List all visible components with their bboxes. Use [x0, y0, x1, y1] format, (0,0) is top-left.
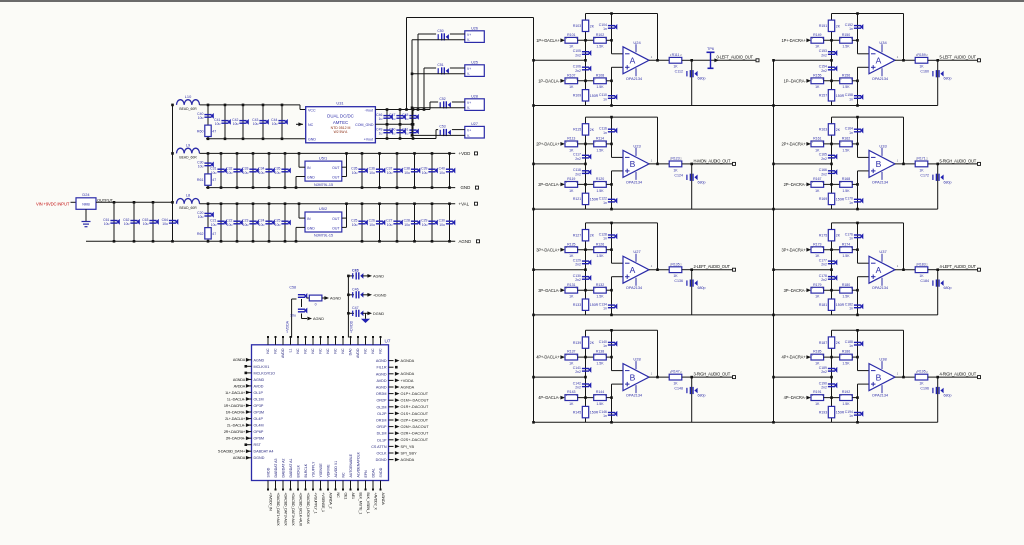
junction	[690, 268, 693, 271]
svg-text:10u: 10u	[369, 171, 375, 175]
svg-text:AGND: AGND	[373, 274, 384, 278]
wire	[903, 117, 905, 164]
svg-text:10u: 10u	[104, 222, 110, 226]
junction	[656, 59, 659, 62]
wire	[857, 14, 859, 54]
resistor R159	[915, 57, 928, 63]
svg-text:10u: 10u	[211, 223, 217, 227]
junction	[220, 240, 223, 243]
wire	[113, 202, 115, 241]
wire	[774, 105, 938, 107]
junction	[856, 104, 859, 107]
wire	[268, 204, 270, 242]
junction	[532, 376, 535, 379]
svg-text:2K: 2K	[590, 24, 595, 28]
capacitor C44	[278, 119, 287, 125]
junction	[610, 314, 613, 317]
resistor R111	[669, 57, 682, 63]
svg-text:C58: C58	[289, 286, 296, 290]
junction	[252, 202, 255, 205]
svg-text:1.5K: 1.5K	[596, 362, 604, 366]
svg-text:OR1P: OR1P	[376, 425, 387, 429]
arrow	[395, 445, 400, 449]
wire	[657, 14, 659, 61]
resistor R135	[669, 267, 682, 273]
junction	[207, 202, 210, 205]
svg-text:R132: R132	[596, 283, 604, 287]
pin right 3	[389, 373, 394, 375]
capacitor C170	[854, 198, 863, 204]
svg-text:V-: V-	[467, 38, 470, 42]
svg-text:1.5K: 1.5K	[842, 295, 850, 299]
wire	[928, 163, 938, 165]
port	[475, 202, 478, 205]
svg-text:R162: R162	[842, 137, 850, 141]
junction	[856, 329, 859, 332]
svg-text:OL1P: OL1P	[254, 391, 264, 395]
svg-text:1K: 1K	[673, 168, 678, 172]
DAC IC U7	[252, 345, 389, 481]
resistor R179	[811, 287, 824, 293]
svg-text:1.5K: 1.5K	[596, 85, 604, 89]
wire	[295, 227, 297, 241]
wire	[450, 33, 465, 35]
svg-text:1K: 1K	[815, 295, 820, 299]
port	[978, 59, 981, 62]
resistor R173	[811, 247, 824, 253]
junction	[152, 201, 155, 204]
junction	[399, 123, 402, 126]
svg-text:R167: R167	[813, 177, 821, 181]
svg-text:V-: V-	[467, 72, 470, 76]
wire	[299, 105, 301, 110]
wire	[386, 110, 388, 125]
wire	[406, 18, 408, 110]
resistor	[205, 174, 211, 185]
svg-text:OL4P: OL4P	[254, 417, 264, 421]
svg-text:2n2: 2n2	[575, 172, 581, 176]
resistor R127	[582, 230, 588, 241]
wire	[586, 222, 658, 224]
svg-text:GND: GND	[308, 138, 316, 142]
svg-text:O1P+-DACOUT: O1P+-DACOUT	[401, 392, 429, 396]
resistor R168	[840, 182, 853, 188]
svg-text:10u: 10u	[243, 171, 249, 175]
svg-text:+DACBD_DAT1+AUX: +DACBD_DAT1+AUX	[276, 493, 280, 527]
svg-text:3P--DACLA-: 3P--DACLA-	[538, 288, 560, 293]
svg-text:OUT: OUT	[332, 166, 340, 170]
svg-text:5-RIGH_AUDIO_OUT: 5-RIGH_AUDIO_OUT	[940, 158, 977, 163]
svg-text:DGND: DGND	[376, 458, 387, 462]
arrow	[246, 449, 251, 453]
wire	[578, 143, 594, 145]
svg-text:R151: R151	[819, 24, 827, 28]
svg-text:OPA2134: OPA2134	[626, 180, 642, 184]
wire	[96, 201, 173, 203]
junction	[386, 137, 389, 140]
wire	[342, 176, 347, 178]
junction	[448, 240, 451, 243]
junction	[830, 163, 833, 166]
wire	[682, 269, 692, 271]
pin right 6	[389, 393, 394, 395]
svg-text:R156: R156	[842, 73, 850, 77]
svg-text:U26: U26	[471, 27, 478, 31]
svg-text:2n2: 2n2	[575, 370, 581, 374]
svg-text:1.5K: 1.5K	[842, 362, 850, 366]
wire	[691, 270, 693, 315]
capacitor C106	[582, 66, 591, 72]
svg-text:C46: C46	[352, 288, 359, 292]
wire	[857, 171, 859, 209]
wire	[396, 204, 398, 242]
svg-text:1u: 1u	[405, 117, 409, 121]
svg-text:R145: R145	[573, 410, 581, 414]
svg-text:1n: 1n	[849, 97, 853, 101]
svg-text:C52: C52	[439, 97, 445, 101]
pin top 3	[282, 338, 284, 345]
junction	[856, 183, 859, 186]
fuse D24	[76, 198, 96, 210]
svg-text:2n2: 2n2	[575, 263, 581, 267]
svg-text:U28: U28	[471, 95, 478, 99]
wire	[606, 397, 611, 399]
junction	[396, 202, 399, 205]
svg-text:10u: 10u	[352, 223, 358, 227]
wire	[299, 166, 305, 168]
pin bottom 14	[365, 481, 367, 489]
svg-text:1K: 1K	[569, 402, 574, 406]
svg-text:1P+-DACLA+: 1P+-DACLA+	[536, 38, 560, 43]
junction	[656, 268, 659, 271]
arrow	[395, 425, 400, 429]
junction	[902, 376, 905, 379]
wire	[200, 104, 301, 106]
svg-text:1L+-DACLA+: 1L+-DACLA+	[225, 391, 245, 395]
junction	[412, 123, 415, 126]
wire	[578, 289, 594, 291]
arrow	[395, 372, 400, 376]
svg-text:O1R+-DACOUT: O1R+-DACOUT	[401, 405, 430, 409]
junction	[220, 202, 223, 205]
arrow	[560, 396, 565, 400]
svg-text:+VSUPPLY_1: +VSUPPLY_1	[313, 493, 317, 514]
capacitor C30	[446, 220, 455, 226]
svg-text:VDRIVE: VDRIVE	[326, 464, 330, 478]
capacitor C39	[428, 168, 437, 174]
svg-text:680p: 680p	[944, 77, 952, 81]
resistor R169	[828, 193, 834, 204]
resistor R126	[594, 247, 607, 253]
wire	[452, 101, 465, 103]
capacitor C128	[608, 233, 617, 239]
svg-text:DUAL DC/DC: DUAL DC/DC	[327, 113, 354, 118]
wire	[649, 59, 669, 61]
svg-text:1.5K: 1.5K	[596, 402, 604, 406]
svg-text:R107: R107	[567, 73, 575, 77]
capacitor	[687, 387, 698, 394]
svg-text:1L--DACLA-: 1L--DACLA-	[227, 397, 246, 401]
junction	[268, 202, 271, 205]
pin left 10	[247, 418, 252, 420]
pin bottom 11	[342, 481, 344, 489]
svg-text:R101: R101	[567, 33, 575, 37]
resistor R161	[811, 141, 824, 147]
wire	[342, 226, 347, 228]
svg-text:U31: U31	[336, 101, 343, 106]
op-amp U37	[869, 254, 895, 286]
capacitor C36	[376, 168, 385, 174]
svg-text:2n2: 2n2	[821, 53, 827, 57]
pin top 8	[320, 338, 322, 345]
resistor R193	[828, 406, 834, 417]
wire	[578, 183, 594, 185]
svg-text:R187: R187	[819, 341, 827, 345]
capacitor C176	[854, 233, 863, 239]
svg-text:AE1: AE1	[351, 493, 355, 500]
capacitor C33	[249, 168, 258, 174]
wire	[431, 204, 433, 242]
svg-text:OPA2134: OPA2134	[872, 394, 888, 398]
pin top 2	[275, 338, 277, 345]
wire	[691, 164, 693, 209]
arrow	[395, 398, 400, 402]
pin left 16	[247, 457, 252, 459]
svg-text:3P--DACRA-: 3P--DACRA-	[784, 288, 807, 293]
junction	[830, 248, 833, 251]
junction	[361, 152, 364, 155]
svg-text:IN: IN	[307, 166, 311, 170]
svg-text:L10: L10	[185, 94, 192, 99]
capacitor C152	[854, 24, 863, 30]
junction	[207, 186, 210, 189]
junction	[113, 240, 116, 243]
svg-text:U5/2: U5/2	[319, 206, 327, 211]
pin right 11	[389, 426, 394, 428]
svg-text:10u: 10u	[439, 171, 445, 175]
junction	[295, 240, 298, 243]
svg-text:10u: 10u	[243, 223, 249, 227]
wire	[578, 356, 594, 358]
junction	[236, 152, 239, 155]
wire	[938, 163, 978, 165]
arrow	[367, 293, 372, 297]
arrow	[395, 392, 400, 396]
wire	[200, 152, 456, 154]
svg-text:R121: R121	[573, 197, 581, 201]
svg-text:W2 5W A: W2 5W A	[334, 130, 349, 134]
svg-text:C112: C112	[675, 70, 683, 74]
connector U26	[465, 31, 485, 43]
op-amp U27	[623, 254, 649, 286]
regulator U5/2	[305, 212, 342, 232]
pin left 14	[247, 444, 252, 446]
pin left 11	[247, 424, 252, 426]
port	[475, 152, 478, 155]
arrow	[806, 288, 811, 292]
svg-text:R155: R155	[813, 73, 821, 77]
svg-text:R183: R183	[917, 262, 925, 266]
wire	[857, 277, 859, 315]
pin bottom 7	[312, 481, 314, 489]
wire	[773, 60, 775, 422]
wire	[937, 60, 939, 105]
resistor R109	[582, 90, 588, 101]
capacitor C23	[249, 220, 258, 226]
junction	[772, 376, 775, 379]
svg-text:1u: 1u	[392, 132, 396, 136]
wire	[452, 129, 465, 131]
svg-text:AGNDA_2: AGNDA_2	[328, 493, 332, 509]
pin bottom 15	[372, 481, 374, 489]
svg-text:RST: RST	[254, 443, 262, 447]
capacitor	[933, 70, 944, 77]
svg-text:1K: 1K	[673, 65, 678, 69]
svg-text:U38: U38	[879, 357, 887, 362]
junction	[856, 421, 859, 424]
svg-text:2K: 2K	[590, 234, 595, 238]
svg-text:+VAL: +VAL	[459, 201, 470, 206]
svg-text:OPA2134: OPA2134	[626, 77, 642, 81]
svg-text:R108: R108	[596, 73, 604, 77]
junction	[378, 202, 381, 205]
port	[476, 186, 479, 189]
junction	[236, 186, 239, 189]
svg-text:10u: 10u	[387, 171, 393, 175]
svg-text:NC: NC	[311, 348, 315, 354]
arrow	[395, 431, 400, 435]
junction	[361, 202, 364, 205]
svg-text:R185: R185	[813, 350, 821, 354]
wire	[220, 153, 222, 187]
svg-text:R62: R62	[197, 232, 204, 236]
pin top 11	[342, 338, 344, 345]
wire	[824, 249, 840, 251]
svg-text:OUT: OUT	[332, 227, 340, 231]
wire	[852, 183, 857, 185]
junction	[610, 183, 613, 186]
wire	[857, 117, 859, 157]
junction	[378, 152, 381, 155]
wire	[431, 153, 433, 187]
svg-text:150R: 150R	[836, 94, 845, 98]
junction	[772, 314, 775, 317]
svg-text:680p: 680p	[944, 286, 952, 290]
svg-text:U24: U24	[633, 40, 641, 45]
pin top 9	[327, 338, 329, 345]
svg-text:U33: U33	[879, 143, 887, 148]
wire	[429, 102, 431, 110]
capacitor	[933, 280, 944, 287]
junction	[448, 202, 451, 205]
capacitor C26	[376, 220, 385, 226]
svg-text:1.5K: 1.5K	[596, 189, 604, 193]
svg-text:R120: R120	[596, 177, 604, 181]
wire	[411, 40, 413, 136]
svg-text:+9VDD0_IN: +9VDD0_IN	[268, 493, 272, 512]
svg-text:C184: C184	[920, 279, 929, 283]
wire	[534, 269, 586, 271]
junction	[207, 104, 210, 107]
wire	[832, 13, 904, 15]
svg-text:680p: 680p	[698, 77, 706, 81]
svg-text:DGND: DGND	[373, 312, 384, 316]
svg-text:R103: R103	[573, 24, 581, 28]
svg-text:1K: 1K	[815, 362, 820, 366]
svg-text:2n2: 2n2	[821, 157, 827, 161]
svg-text:R123: R123	[671, 157, 679, 161]
wire	[824, 39, 840, 41]
junction	[610, 396, 613, 399]
svg-text:OL1M: OL1M	[254, 398, 264, 402]
svg-text:SPI_YB: SPI_YB	[401, 445, 415, 449]
svg-text:YSENSE: YSENSE	[319, 463, 323, 478]
capacitor	[933, 387, 944, 394]
svg-text:R179: R179	[813, 283, 821, 287]
svg-text:A: A	[876, 265, 882, 275]
junction	[268, 186, 271, 189]
svg-text:1.5K: 1.5K	[842, 85, 850, 89]
wire	[296, 176, 305, 178]
resistor R102	[594, 37, 607, 43]
junction	[830, 39, 833, 42]
svg-text:L1: L1	[289, 348, 293, 352]
capacitor C25	[281, 220, 290, 226]
svg-text:1K: 1K	[673, 382, 678, 386]
capacitor C105	[582, 50, 591, 56]
wire	[606, 289, 611, 291]
arrow	[806, 142, 811, 146]
svg-text:NC: NC	[326, 348, 330, 354]
svg-text:1.5K: 1.5K	[842, 254, 850, 258]
svg-text:A: A	[630, 56, 636, 66]
junction	[413, 186, 416, 189]
svg-text:1P--DACRA-: 1P--DACRA-	[784, 78, 807, 83]
svg-text:U28: U28	[633, 357, 641, 362]
svg-text:680p: 680p	[698, 180, 706, 184]
svg-text:R139: R139	[573, 341, 581, 345]
wire	[200, 203, 456, 205]
capacitor C178	[828, 275, 837, 281]
resistor R181	[828, 299, 834, 310]
wire	[585, 144, 587, 185]
svg-text:2K: 2K	[836, 128, 841, 132]
pin right 8	[389, 406, 394, 408]
svg-text:IN: IN	[307, 217, 311, 221]
svg-text:R186: R186	[842, 350, 850, 354]
junction	[347, 294, 350, 297]
capacitor C22	[233, 220, 242, 226]
junction	[584, 289, 587, 292]
junction	[584, 396, 587, 399]
capacitor C20	[204, 212, 213, 218]
junction	[431, 240, 434, 243]
wire	[418, 33, 436, 35]
svg-text:O2M+-DACOUT: O2M+-DACOUT	[401, 425, 430, 429]
svg-text:2K: 2K	[836, 24, 841, 28]
svg-text:1n: 1n	[603, 131, 607, 135]
svg-text:OL2M: OL2M	[376, 405, 386, 409]
pin bottom 6	[305, 481, 307, 489]
svg-text:1K: 1K	[815, 402, 820, 406]
arrow	[395, 405, 400, 409]
junction	[361, 240, 364, 243]
pin left 1	[247, 359, 252, 361]
svg-text:DABDAT A2: DABDAT A2	[281, 459, 285, 478]
wire	[346, 204, 348, 228]
junction	[171, 104, 174, 107]
svg-text:MCLK/X1: MCLK/X1	[254, 365, 270, 369]
